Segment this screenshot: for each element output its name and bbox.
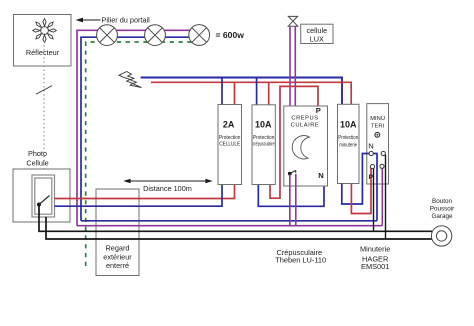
wire: blue from 10A breaker to crepuscular N — [258, 185, 324, 207]
lux sensor symbol (hourglass) — [288, 16, 298, 26]
wire: purple lamp return bus (bottom) — [77, 225, 382, 227]
svg-text:Poussoir: Poussoir — [430, 206, 455, 213]
lightning bolt icon — [119, 72, 142, 88]
svg-text:CULAIRE: CULAIRE — [291, 123, 320, 129]
crepuscular internal switch — [288, 170, 296, 175]
wire: lamp purple feed (vertical left + top run) — [77, 30, 199, 225]
svg-text:TERI: TERI — [371, 123, 385, 129]
svg-text:Distance 100m: Distance 100m — [143, 184, 192, 193]
push button (bouton poussoir garage) — [430, 198, 455, 246]
lamp L3 — [189, 25, 210, 46]
wire: red breaker to minuterie P terminal — [351, 167, 371, 214]
svg-text:N: N — [368, 142, 373, 151]
wire: blue tap to 10A crepusculaire breaker — [256, 78, 258, 105]
svg-text:Minuterie: Minuterie — [360, 244, 390, 253]
label: Pilier du portail with arrow — [76, 16, 151, 25]
wire: purple from switch lever down to timer bus — [295, 174, 297, 226]
wire: blue neutral bus to minuterie (bottom) — [81, 220, 377, 222]
minuterie box — [367, 104, 389, 184]
svg-text:= 600w: = 600w — [216, 30, 245, 40]
svg-text:LUX: LUX — [310, 34, 324, 43]
wire: black bus 2 (photocell to button) — [46, 217, 434, 239]
wire: blue from N terminal down to lamp neutral bus — [371, 154, 377, 221]
svg-text:CREPUS: CREPUS — [291, 115, 318, 121]
beam slash mark — [36, 86, 52, 95]
svg-text:P: P — [369, 174, 374, 181]
wire: purple from switch common down to lamp bus — [289, 175, 291, 226]
wire: red tap to 10A crepusculaire breaker — [268, 82, 270, 105]
svg-text:Protection: Protection — [253, 135, 275, 141]
crepuscular switch box — [284, 106, 328, 186]
wire: red tap to 2A breaker — [234, 82, 236, 104]
cellule LUX box — [301, 24, 333, 43]
svg-text:2A: 2A — [223, 120, 235, 130]
wire: lamp green earth (dashed) — [86, 42, 199, 266]
svg-text:Bouton: Bouton — [432, 198, 452, 205]
wire: lamp blue neutral (vertical left + top run) — [81, 37, 199, 221]
svg-text:Regard: Regard — [106, 243, 130, 252]
svg-text:Photo: Photo — [28, 149, 47, 158]
wire: blue tap to 2A breaker — [221, 78, 223, 105]
minuterie terminals — [369, 151, 385, 168]
svg-text:minuterie: minuterie — [339, 142, 357, 148]
svg-text:P: P — [316, 106, 321, 115]
breaker 10A box (protection minuterie) — [338, 104, 360, 183]
svg-text:Cellule: Cellule — [26, 158, 48, 167]
label: Minuterie HAGER EMS001 — [360, 244, 390, 271]
label: Crepusculaire Theben LU-110 — [275, 248, 326, 265]
wire: blue breaker to minuterie N — [342, 154, 371, 205]
wire: photocell red to 2A breaker — [55, 185, 235, 199]
photocell device — [32, 175, 55, 217]
wire: black from minuterie terminal to bus 2 — [383, 154, 385, 240]
lamp L2 — [145, 25, 166, 46]
photo cell outer box — [13, 149, 70, 222]
dotted light beam line from sun to photocell — [43, 41, 45, 172]
breaker 2A box (protection cellule) — [218, 105, 242, 185]
sun icon — [33, 19, 57, 43]
svg-text:Theben LU-110: Theben LU-110 — [275, 256, 326, 265]
wire: photocell blue to 2A breaker — [55, 185, 223, 207]
wire: black from minuterie command to bus 1 — [373, 167, 375, 232]
svg-text:Protection: Protection — [338, 135, 358, 141]
wire: blue phase bus (top) — [141, 78, 342, 105]
wire: red phase bus (top) — [151, 82, 351, 104]
label: Distance 100m with double arrow — [123, 179, 212, 194]
wire: cellule LUX purple pair down to crepuscular switch — [289, 26, 291, 106]
regard box (Regard extérieur enterré) — [96, 189, 139, 276]
svg-text:N: N — [318, 171, 323, 180]
svg-text:Protection: Protection — [219, 135, 241, 141]
moon icon — [292, 136, 309, 159]
svg-text:enterré: enterré — [106, 261, 129, 270]
svg-text:MINU: MINU — [370, 116, 385, 122]
wire: black bus 1 (photocell switch to button) — [39, 205, 432, 232]
reflector box (Réflecteur) — [14, 15, 72, 67]
photocell internal switch — [37, 196, 50, 207]
svg-text:crépusculaire: crépusculaire — [253, 142, 275, 148]
clock icon — [375, 132, 380, 137]
svg-text:Réflecteur: Réflecteur — [26, 48, 60, 57]
breaker 10A box (protection crepusculaire) — [252, 105, 275, 185]
wire: red from 10A breaker out to crepuscular P terminal — [270, 86, 318, 198]
svg-text:EMS001: EMS001 — [361, 262, 389, 271]
svg-text:Pilier du portail: Pilier du portail — [102, 16, 151, 25]
svg-text:Garage: Garage — [431, 213, 453, 220]
svg-text:CELLULE: CELLULE — [219, 142, 240, 148]
wire: purple timer output down to bus — [381, 166, 383, 225]
lamp L1 — [97, 25, 118, 46]
svg-text:10A: 10A — [255, 120, 272, 130]
svg-text:10A: 10A — [340, 120, 357, 130]
